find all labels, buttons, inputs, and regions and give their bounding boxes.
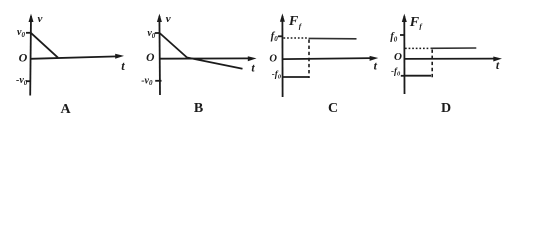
svg-text:O: O <box>269 54 277 65</box>
graph C friction lower branch <box>283 76 309 78</box>
graph D -f0 tick <box>401 75 405 77</box>
graph C F-axis arrowhead <box>280 13 285 21</box>
graph A v-axis <box>29 16 32 96</box>
svg-text:B: B <box>194 101 203 116</box>
graph A t-axis arrowhead <box>115 54 124 59</box>
svg-text:v: v <box>166 13 171 25</box>
graph C F-axis <box>281 16 283 97</box>
svg-text:C: C <box>328 101 338 116</box>
graph C dotted f0 level line <box>284 37 309 39</box>
graph B v-axis <box>158 16 161 95</box>
graph D dotted partial level line <box>405 47 430 49</box>
svg-text:F: F <box>409 15 420 30</box>
graph A -v0 tick <box>26 80 31 82</box>
graph B t-axis arrowhead <box>248 56 257 61</box>
graph A sloping velocity line <box>31 33 58 58</box>
graph D F-axis arrowhead <box>402 14 407 22</box>
graph C t-axis <box>283 58 372 59</box>
graph B -v0 tick <box>155 80 161 82</box>
graph A v0 tick <box>26 32 31 34</box>
graph C t-axis arrowhead <box>370 56 379 61</box>
graph D friction upper branch <box>431 47 477 49</box>
svg-text:A: A <box>60 102 71 117</box>
svg-text:O: O <box>394 51 402 63</box>
graph B v-axis arrowhead <box>157 14 162 22</box>
graph D F-axis <box>403 16 405 94</box>
graph A t-axis <box>30 56 117 58</box>
svg-text:F: F <box>288 14 299 29</box>
graph C dashed jump vertical <box>308 40 310 79</box>
graph C f0 tick <box>278 35 283 37</box>
graph D t-axis arrowhead <box>493 57 502 62</box>
svg-text:O: O <box>19 51 28 65</box>
svg-text:D: D <box>441 101 451 116</box>
graph B v0 tick <box>155 32 160 34</box>
graph D dashed jump vertical <box>431 50 433 79</box>
svg-text:O: O <box>146 52 154 64</box>
graph B velocity line segment 2 <box>187 58 243 69</box>
svg-text:v: v <box>38 13 43 25</box>
graph B velocity line segment 1 <box>160 33 187 58</box>
graph D t-axis <box>404 58 495 60</box>
graph D f0 tick <box>400 34 405 36</box>
graph A v-axis arrowhead <box>29 14 34 22</box>
graph B t-axis <box>160 57 250 59</box>
graph C friction upper branch <box>309 37 357 39</box>
graph D friction lower branch <box>405 75 431 77</box>
svg-text:t: t <box>121 59 125 73</box>
